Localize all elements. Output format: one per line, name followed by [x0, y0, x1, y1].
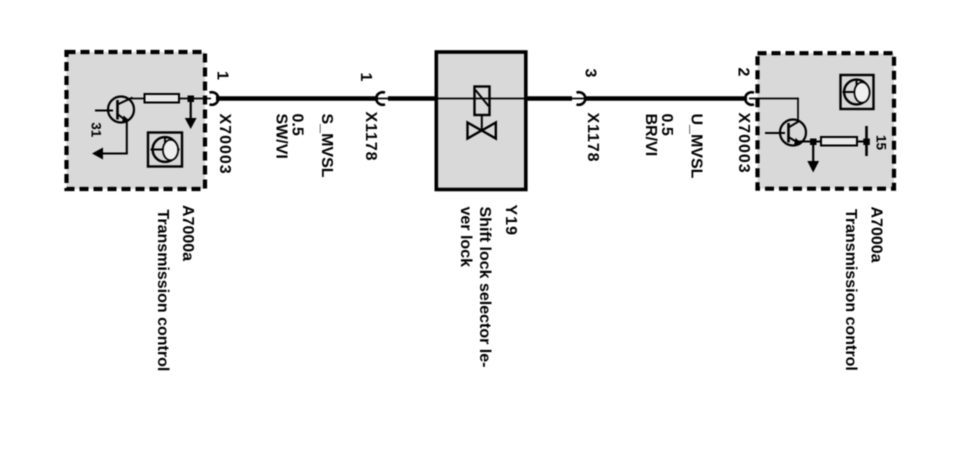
svg-text:2: 2 [735, 68, 752, 77]
svg-text:0.5: 0.5 [658, 114, 675, 136]
svg-text:1: 1 [357, 73, 374, 82]
svg-text:Transmission control: Transmission control [842, 209, 859, 371]
svg-text:15: 15 [874, 135, 889, 151]
svg-text:31: 31 [89, 122, 104, 138]
svg-text:X1178: X1178 [362, 112, 379, 162]
svg-text:Y19: Y19 [502, 205, 519, 236]
svg-text:X70003: X70003 [216, 114, 233, 175]
svg-text:BR/VI: BR/VI [642, 114, 659, 157]
svg-text:SW/VI: SW/VI [273, 114, 290, 159]
svg-text:A7000a: A7000a [868, 207, 885, 263]
svg-text:A7000a: A7000a [179, 205, 196, 261]
svg-text:U_MVSL: U_MVSL [688, 114, 705, 179]
svg-text:X1178: X1178 [584, 113, 601, 163]
svg-text:1: 1 [214, 71, 231, 80]
svg-text:ver lock: ver lock [457, 207, 474, 268]
svg-text:Shift lock selector le-: Shift lock selector le- [476, 207, 493, 368]
svg-text:3: 3 [582, 69, 599, 78]
svg-text:S_MVSL: S_MVSL [318, 114, 335, 178]
svg-text:0.5: 0.5 [289, 114, 306, 136]
svg-text:Transmission control: Transmission control [154, 210, 171, 372]
svg-text:X70003: X70003 [735, 113, 752, 174]
